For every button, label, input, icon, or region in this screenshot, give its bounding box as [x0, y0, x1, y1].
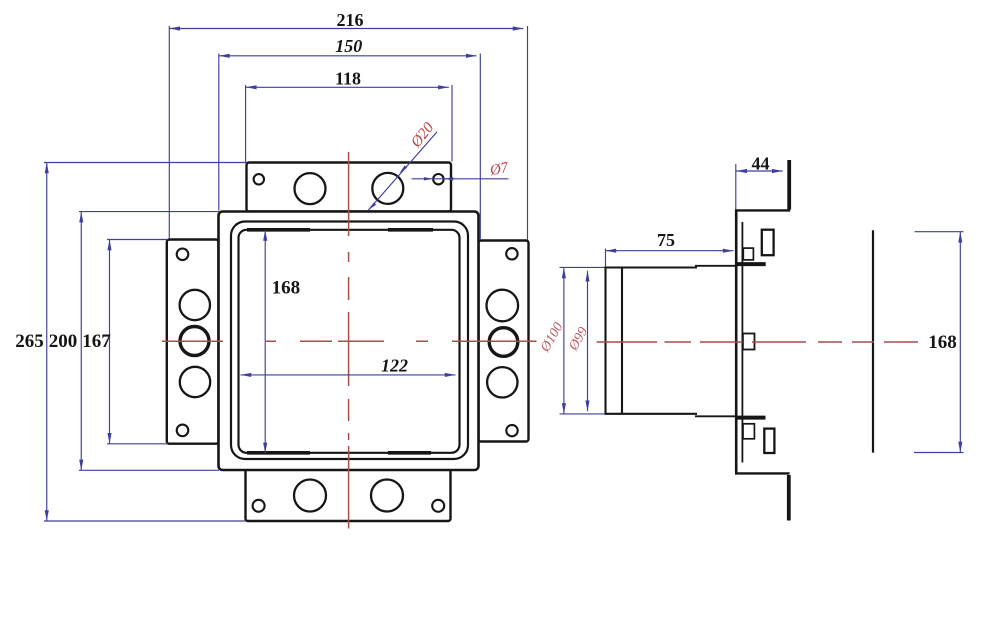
bottom flange small hole left [253, 500, 265, 512]
dim 168 right ext bottom [914, 452, 964, 454]
dim 200 ext bottom [79, 469, 219, 471]
dim 122 line [241, 374, 456, 376]
cylinder left edge [604, 267, 606, 415]
bottom flange big hole right [371, 480, 403, 512]
tab segment bottom-right [388, 451, 431, 455]
cylinder lip bottom edge [695, 415, 736, 417]
dim 265 ext bottom [44, 520, 246, 522]
right flange small hole bottom [506, 425, 517, 436]
top flange plate [247, 163, 452, 212]
dia20 arrowhead upper [400, 165, 408, 173]
svg-text:265: 265 [15, 331, 44, 352]
rear panel edge line [872, 230, 874, 452]
dim 150 line [219, 55, 477, 57]
dim 150 ext left [218, 54, 220, 211]
dia20 leader line [368, 132, 437, 211]
svg-text:216: 216 [337, 10, 364, 30]
mounting plate front line [735, 210, 738, 473]
dim 168 front line [264, 230, 266, 453]
SIDE VIEW [606, 160, 874, 521]
window inner rounded rect [239, 230, 460, 453]
svg-text:150: 150 [335, 36, 362, 56]
right flange plate [479, 241, 529, 442]
bottom flange plate [246, 469, 451, 521]
svg-text:168: 168 [928, 332, 957, 353]
cylinder top edge [606, 266, 698, 268]
bottom clip tall rect [764, 429, 774, 453]
dim 200 ext top [79, 211, 219, 213]
svg-text:168: 168 [272, 278, 301, 299]
dim 216 ext right [527, 26, 529, 240]
bottom flange small hole right [432, 500, 444, 512]
dim 168 right line [959, 232, 961, 453]
dim 150 ext right [479, 54, 481, 241]
top flange small hole right (Ø7) [433, 174, 443, 184]
top flange small hole left [254, 174, 264, 184]
dim 118 ext right [451, 85, 453, 162]
dim dia100 ext top [560, 266, 605, 268]
left flange small hole bottom [177, 425, 189, 437]
right flange big hole 2 thick [489, 328, 518, 357]
tab segment bottom-left [247, 451, 310, 455]
dim dia100 line [563, 268, 565, 414]
bottom clip thick bar [736, 416, 765, 420]
side horizontal centerline [597, 341, 919, 343]
dim 75 line [606, 250, 734, 252]
left flange big hole 3 [180, 367, 210, 397]
svg-text:122: 122 [381, 356, 408, 376]
cylinder lip top edge [695, 265, 736, 267]
dia7 leader line [412, 178, 509, 180]
top lip vertical thick [787, 160, 791, 210]
left flange small hole top [177, 249, 189, 261]
svg-text:200: 200 [49, 331, 78, 352]
dim 168 right ext top [915, 231, 964, 233]
svg-text:118: 118 [335, 69, 361, 89]
top clip small square [743, 248, 753, 260]
front vertical centerline [348, 152, 350, 529]
svg-text:44: 44 [752, 153, 770, 173]
main box outline [219, 212, 479, 471]
svg-text:75: 75 [657, 230, 675, 250]
tab segment top-left [247, 228, 310, 232]
CENTERLINES [162, 152, 918, 529]
dim 75 ext left [605, 249, 607, 267]
tab segment top-right [388, 228, 433, 232]
dim 200 line [80, 212, 82, 471]
svg-text:167: 167 [82, 331, 111, 352]
cylinder bottom edge [606, 413, 698, 415]
dim dia99 line [587, 271, 589, 411]
dim 265 line [46, 163, 48, 522]
top flange big hole right (Ø20) [372, 173, 403, 204]
right flange big hole 3 [487, 367, 517, 397]
top clip thick bar [736, 262, 766, 266]
dia7 arrowhead left [424, 177, 433, 180]
dim 167 ext bottom [107, 443, 168, 445]
bottom lip vertical thick [787, 475, 791, 521]
dim 265 ext top [44, 162, 247, 164]
top bend horizontal [735, 209, 790, 211]
dia20 arrowhead lower [369, 202, 377, 210]
dim 167 line [109, 240, 111, 444]
front horizontal centerline [162, 340, 537, 342]
dim 44 ext left [735, 164, 737, 210]
dim 118 ext left [245, 85, 247, 162]
bottom bend horizontal [735, 472, 790, 474]
top clip tall rect [762, 230, 774, 256]
window outer rounded rect [231, 222, 468, 460]
cylinder front rim line [621, 268, 623, 414]
left flange big hole 2 thick [180, 327, 209, 356]
dim 44 line [736, 170, 782, 172]
dim 216 ext left [168, 26, 170, 239]
right flange big hole 1 [487, 290, 519, 322]
dim 167 ext top [107, 239, 168, 241]
top flange big hole left [295, 173, 326, 204]
dia7 arrowhead right [444, 177, 453, 180]
dim 216 line [169, 28, 523, 30]
bottom flange big hole left [294, 480, 326, 512]
right flange small hole top [506, 248, 517, 259]
bottom clip small square [743, 424, 754, 439]
DIMENSIONS [44, 26, 964, 521]
left flange plate [167, 240, 219, 444]
FRONT VIEW [167, 163, 529, 522]
middle clip square [743, 334, 755, 350]
dim 118 line [246, 86, 449, 88]
mounting plate back line [741, 222, 743, 463]
left flange big hole 1 [180, 290, 210, 320]
dim dia100 ext bottom [560, 413, 605, 415]
